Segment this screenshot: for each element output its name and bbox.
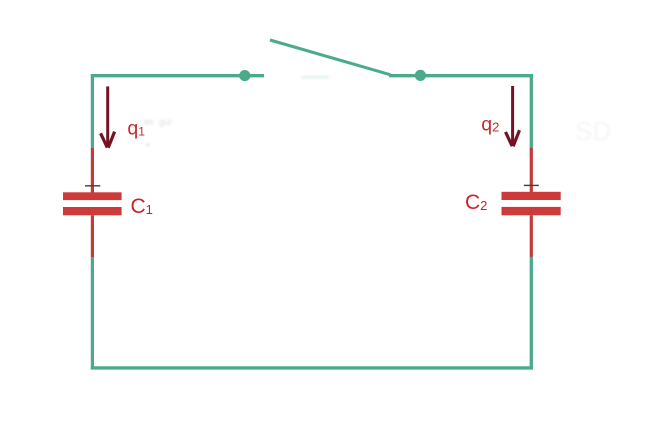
C2 plus polarity mark: [524, 184, 539, 186]
wire: top-left horizontal segment: [91, 74, 264, 77]
capacitor C2 bottom plate: [502, 207, 561, 215]
svg-text:SD: SD: [575, 116, 611, 146]
wire: bottom horizontal: [91, 366, 533, 369]
wire: right vertical lower (green): [530, 257, 533, 369]
wire: C1 top lead (red): [91, 148, 94, 193]
wire: left vertical lower (green): [91, 257, 94, 369]
svg-text:C2: C2: [465, 191, 487, 214]
wire: left vertical upper (green): [91, 74, 94, 148]
arrow q2 (charge direction, right): [506, 86, 520, 146]
capacitor C1 top plate: [63, 192, 122, 200]
capacitor C1 bottom plate: [63, 207, 122, 215]
wire: C1 bottom lead (red): [91, 215, 94, 257]
wire: C2 top lead (red): [530, 148, 533, 192]
wire: top-right horizontal segment: [389, 74, 533, 77]
capacitor C2 top plate: [502, 192, 561, 200]
svg-text:C1: C1: [131, 195, 153, 218]
svg-text:q1: q1: [127, 117, 145, 139]
wire: right vertical upper (green): [530, 74, 533, 148]
arrow q1 (charge direction, left): [101, 86, 115, 147]
node: switch right terminal dot: [415, 70, 426, 81]
svg-text:q2: q2: [481, 113, 499, 135]
wire: C2 bottom lead (red): [530, 215, 533, 257]
C1 plus polarity mark: [85, 185, 100, 187]
svg-text:gur: gur: [159, 117, 172, 127]
node: switch left terminal dot: [239, 70, 250, 81]
switch blade (open): [270, 40, 391, 75]
svg-text:im: im: [144, 117, 154, 127]
